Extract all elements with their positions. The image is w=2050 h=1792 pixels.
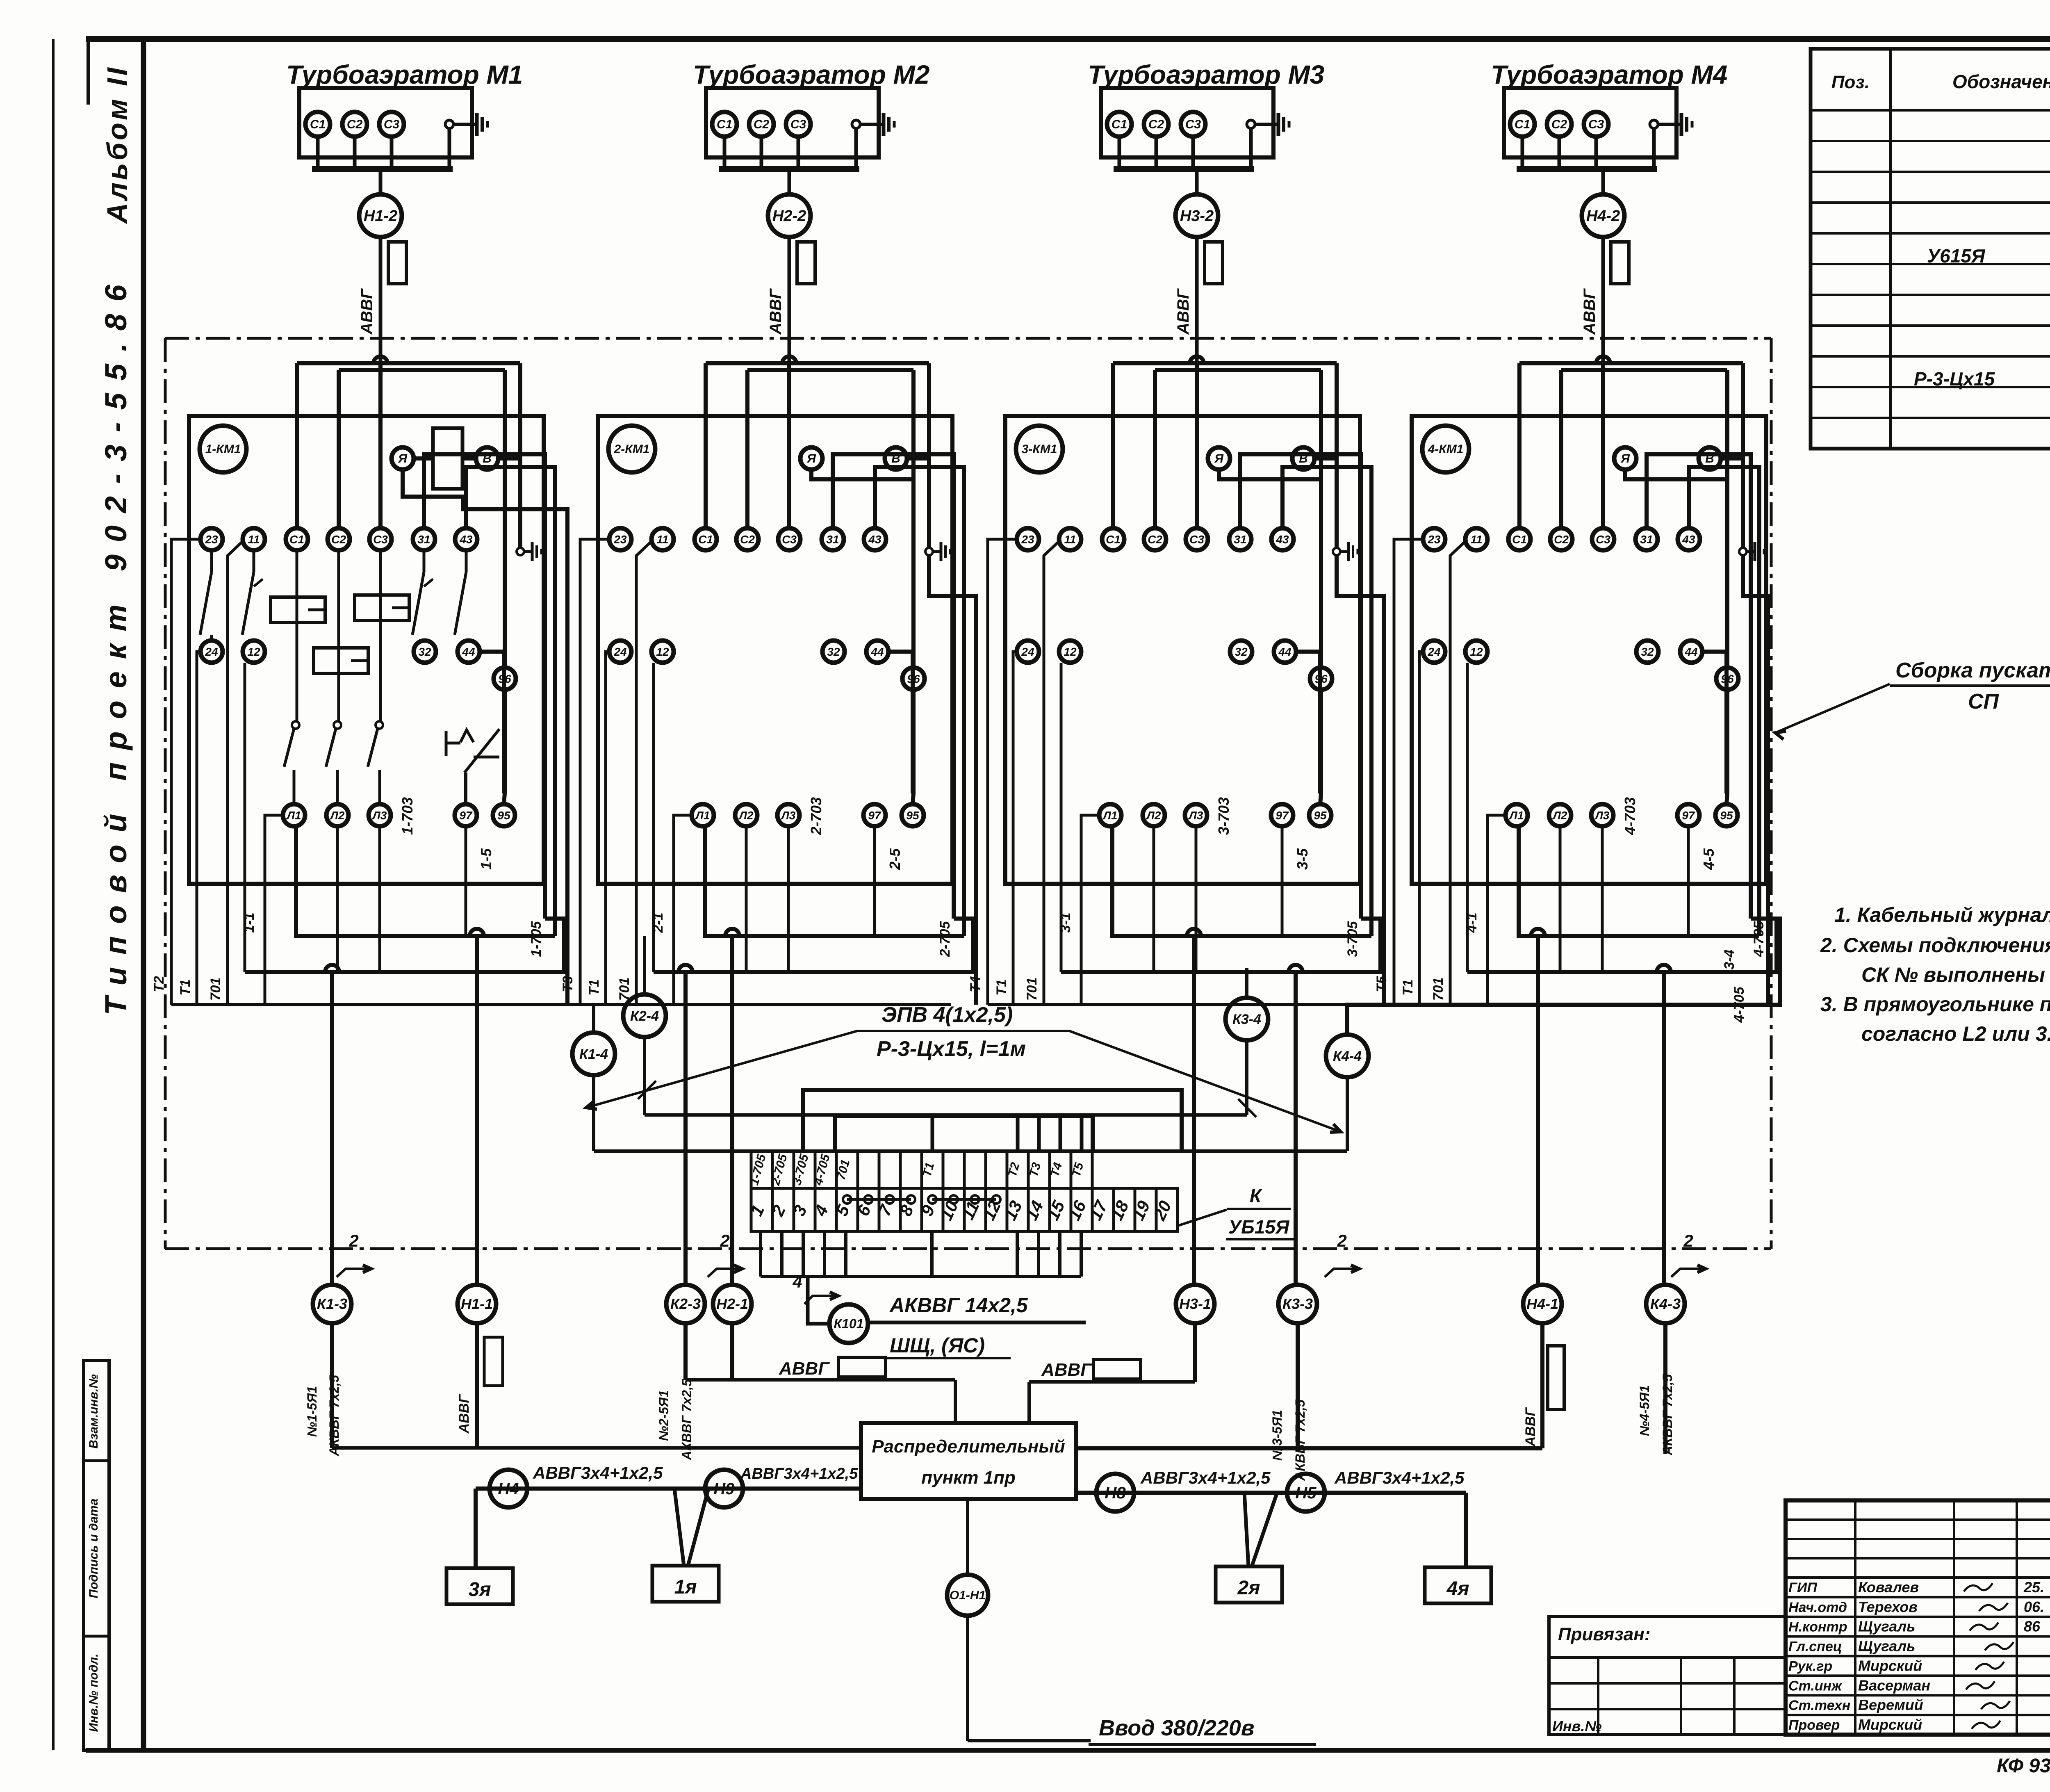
starter assembly boundary (dash-dot) [165, 338, 1771, 1249]
svg-text:3-5: 3-5 [1294, 848, 1311, 870]
svg-text:24: 24 [205, 645, 218, 658]
svg-text:Т3: Т3 [560, 976, 576, 992]
terminal С2 (3-КМ1) [1144, 528, 1166, 550]
terminal С1 (4-КМ1) [1508, 528, 1531, 550]
terminal 10 [943, 1188, 964, 1231]
wire [414, 456, 433, 461]
terminal 24 (2-КМ1) [609, 641, 631, 663]
svg-text:Турбоаэратор М1: Турбоаэратор М1 [286, 60, 523, 89]
wire [1394, 539, 1423, 1005]
svg-text:К2-3: К2-3 [670, 1295, 701, 1312]
wire [378, 363, 383, 528]
designator 4-КМ1 [1422, 426, 1469, 472]
cable callout ЭПВ 4(1х2,5) [586, 1003, 1341, 1132]
strip upper cell 5 [836, 1151, 858, 1188]
svg-text:К: К [1250, 1185, 1262, 1206]
motor terminal С2 (M2) [749, 112, 774, 137]
terminal 32 (4-КМ1) [1636, 641, 1658, 663]
svg-text:1-1: 1-1 [241, 912, 257, 932]
svg-text:1-КМ1: 1-КМ1 [205, 442, 241, 456]
strip upper cell 6 [858, 1151, 879, 1188]
wire [1601, 237, 1605, 410]
svg-text:2-703: 2-703 [808, 797, 825, 835]
terminal 96 [1716, 668, 1738, 690]
svg-text:Сборка пускателей: Сборка пускателей [1895, 659, 2050, 682]
terminal 24 (1-КМ1) [200, 641, 223, 663]
wire [706, 361, 929, 365]
svg-text:4-КМ1: 4-КМ1 [1428, 442, 1464, 456]
svg-text:Типовой проект 902-3-55.86: Типовой проект 902-3-55.86 [99, 272, 133, 1015]
svg-text:Т1: Т1 [994, 979, 1009, 996]
svg-text:Ст.инж: Ст.инж [1788, 1678, 1843, 1694]
terminal 16 [1071, 1188, 1092, 1231]
terminal 23 (1-КМ1) [200, 528, 223, 550]
wire [244, 663, 246, 972]
terminal 97 (3-КМ1) [1271, 804, 1293, 826]
svg-text:2-КМ1: 2-КМ1 [614, 442, 650, 456]
wire [1155, 368, 1321, 372]
terminal Л3 (2-КМ1) [777, 804, 799, 826]
ground [1658, 123, 1681, 126]
svg-text:С1: С1 [1112, 118, 1127, 131]
terminal 97 (1-КМ1) [455, 804, 477, 826]
svg-text:3-КМ1: 3-КМ1 [1022, 442, 1057, 456]
wire [1244, 1493, 1248, 1566]
coil terminal Я (4) [1614, 447, 1636, 470]
cable marker Н2-2 [768, 194, 811, 237]
cable marker Н1-1 [458, 1285, 496, 1323]
section marker 2 [1671, 1231, 1706, 1277]
motor terminal С1 (M1) [305, 112, 330, 137]
wire [1702, 650, 1727, 654]
cable Н2-1 feeder [730, 1323, 734, 1380]
cable marker К3-3 [1278, 1285, 1317, 1323]
wire [913, 690, 913, 804]
ground tap (M3) [1247, 120, 1255, 128]
wire [336, 826, 339, 972]
svg-text:2: 2 [1683, 1231, 1693, 1250]
terminal 12 [986, 1188, 1007, 1231]
wire [1112, 826, 1371, 936]
cable marker Н4-1 [1523, 1285, 1562, 1323]
svg-text:К3-4: К3-4 [1232, 1012, 1261, 1027]
terminal Л3 (1-КМ1) [369, 804, 391, 826]
svg-text:К4-3: К4-3 [1650, 1295, 1681, 1312]
terminal Л2 (3-КМ1) [1143, 804, 1165, 826]
cable link К101 to ШЩ [868, 1294, 1086, 1358]
section marker 2 [708, 1231, 742, 1277]
cable К2-3 feeder [656, 1323, 694, 1461]
svg-text:2. Схемы подключения соединит: 2. Схемы подключения соединительных коро… [1820, 934, 2050, 957]
wire [835, 1116, 1093, 1151]
wire [1059, 1116, 1062, 1151]
wire [907, 456, 929, 461]
svg-text:К1-3: К1-3 [317, 1295, 347, 1312]
cable marker Н4 [490, 1470, 527, 1507]
svg-text:95: 95 [1720, 809, 1733, 822]
cable marker Н8 [1096, 1474, 1134, 1512]
terminal С3 (1-КМ1) [369, 528, 392, 550]
svg-text:Я: Я [1214, 452, 1224, 465]
strip upper cell 3 [794, 1151, 815, 1188]
svg-text:4-705: 4-705 [1751, 921, 1767, 957]
svg-text:АВВГ: АВВГ [767, 288, 785, 335]
svg-text:2: 2 [348, 1231, 358, 1250]
wire [1466, 663, 1469, 972]
svg-text:АКВВГ 7х2,5: АКВВГ 7х2,5 [679, 1379, 694, 1461]
bus РП to Н4/Н9 [476, 1486, 861, 1491]
main contact pole 1 [284, 550, 299, 804]
wire [245, 919, 564, 972]
svg-text:Л3: Л3 [1594, 809, 1610, 822]
svg-text:С1: С1 [1515, 118, 1530, 131]
thermal overload element [446, 729, 499, 804]
svg-text:11: 11 [1064, 533, 1076, 546]
turbo-aerator M1 unit [286, 60, 523, 410]
wire [265, 815, 283, 1005]
terminal 4 [815, 1188, 836, 1231]
wire [875, 467, 964, 936]
cable marker Н9 [705, 1470, 743, 1507]
terminal 32 (3-КМ1) [1230, 641, 1252, 663]
junction [1187, 929, 1201, 936]
breaker contact 11-12 [242, 550, 263, 635]
svg-text:32: 32 [418, 645, 431, 658]
magnetic starter block 1-КМ1 [151, 356, 594, 1285]
svg-text:Нач.отд: Нач.отд [1788, 1600, 1847, 1615]
parts list table [1811, 49, 2050, 449]
binding table Привязан [1549, 1616, 1786, 1735]
terminal 18 [1114, 1188, 1135, 1231]
terminal 3 [794, 1188, 815, 1231]
wire [674, 815, 692, 1005]
svg-text:97: 97 [868, 809, 881, 822]
svg-text:ЭПВ 4(1х2,5): ЭПВ 4(1х2,5) [881, 1003, 1013, 1027]
svg-text:АКВВГ 7х2,5: АКВВГ 7х2,5 [1293, 1399, 1307, 1481]
terminal 44 (4-КМ1) [1680, 641, 1702, 663]
svg-text:К101: К101 [834, 1316, 863, 1331]
svg-text:С2: С2 [1554, 533, 1569, 546]
svg-text:Турбоаэратор М3: Турбоаэратор М3 [1088, 60, 1324, 89]
cable marker К101 [808, 1277, 868, 1343]
wire [745, 826, 748, 972]
wire [1337, 555, 1384, 1005]
svg-text:3-1: 3-1 [1058, 912, 1073, 932]
wire [171, 539, 200, 1005]
svg-text:С3: С3 [1596, 533, 1610, 546]
wire [1219, 470, 1320, 479]
cable marker К3-4 [1225, 968, 1268, 1115]
terminal 12 (4-КМ1) [1465, 641, 1487, 663]
wire [330, 972, 334, 1285]
svg-text:1я: 1я [674, 1576, 697, 1598]
svg-text:32: 32 [1235, 645, 1248, 658]
svg-text:АВВГ3х4+1х2,5: АВВГ3х4+1х2,5 [740, 1465, 858, 1482]
panel 2я [1216, 1566, 1282, 1603]
wire [480, 650, 504, 654]
ground tap (M4) [1650, 120, 1658, 128]
svg-text:2-705: 2-705 [937, 921, 953, 957]
panel 1я [652, 1566, 719, 1602]
svg-text:Л3: Л3 [781, 809, 796, 822]
svg-text:44: 44 [1684, 645, 1698, 658]
svg-text:АКВВГ 14х2,5: АКВВГ 14х2,5 [889, 1294, 1028, 1317]
wire [1118, 137, 1121, 169]
svg-text:23: 23 [1021, 533, 1034, 546]
svg-text:4я: 4я [1446, 1578, 1469, 1600]
cable section box [1205, 242, 1223, 284]
svg-text:Я: Я [398, 452, 408, 465]
svg-text:701: 701 [617, 978, 632, 1001]
svg-text:Л1: Л1 [1509, 809, 1524, 822]
ground [453, 123, 477, 126]
wire [654, 919, 973, 972]
svg-text:23: 23 [613, 533, 627, 546]
svg-text:СК № выполнены в проекте ЯТХ,: СК № выполнены в проекте ЯТХ, L5,6. [1861, 963, 2050, 986]
terminal 17 [1092, 1188, 1114, 1231]
svg-text:43: 43 [1276, 533, 1289, 546]
svg-text:701: 701 [208, 978, 223, 1001]
terminal 95 (1-КМ1) [493, 804, 515, 826]
terminal 11 (1-КМ1) [243, 528, 265, 550]
terminal 95 (4-КМ1) [1715, 804, 1738, 826]
terminal С1 (2-КМ1) [695, 528, 717, 550]
wire [171, 1003, 594, 1006]
relay coil 1 [271, 597, 325, 622]
designator 1-КМ1 [200, 426, 246, 472]
svg-text:АВВГ3х4+1х2,5: АВВГ3х4+1х2,5 [1334, 1468, 1465, 1487]
terminal 31 (3-КМ1) [1229, 528, 1251, 550]
svg-text:4: 4 [792, 1272, 802, 1291]
wire [1195, 826, 1198, 972]
wire [674, 1489, 684, 1566]
svg-text:Поз.: Поз. [1831, 72, 1870, 92]
notes [1820, 903, 2050, 1045]
svg-text:Ковалев: Ковалев [1858, 1579, 1919, 1596]
strip lower comb [761, 1231, 1081, 1277]
svg-text:Н2-1: Н2-1 [716, 1295, 748, 1312]
wire [1249, 128, 1253, 169]
svg-text:44: 44 [1278, 645, 1291, 658]
svg-text:Н5: Н5 [1295, 1484, 1317, 1502]
svg-text:Н1-1: Н1-1 [461, 1295, 493, 1312]
wire [1037, 1116, 1041, 1151]
wire [228, 541, 243, 1005]
svg-text:31: 31 [1640, 533, 1653, 546]
svg-text:С2: С2 [740, 533, 755, 546]
svg-text:Н4-1: Н4-1 [1526, 1295, 1558, 1312]
svg-text:Мирский: Мирский [1858, 1716, 1922, 1733]
terminal С2 (2-КМ1) [736, 528, 758, 550]
bus to РП left [332, 1446, 861, 1450]
cable marker Н3-1 [1176, 1285, 1214, 1323]
svg-text:К3-3: К3-3 [1282, 1295, 1313, 1312]
svg-text:Ввод 380/220в: Ввод 380/220в [1099, 1716, 1254, 1740]
terminal С3 (4-КМ1) [1592, 528, 1614, 550]
wire [379, 169, 383, 194]
terminal 15 [1050, 1188, 1071, 1231]
svg-text:УБ15Я: УБ15Я [1228, 1216, 1290, 1238]
svg-text:Щугаль: Щугаль [1858, 1618, 1915, 1635]
wire [1662, 972, 1666, 1285]
wire [1113, 361, 1337, 365]
wire [1687, 826, 1690, 936]
motor lead bus [1517, 166, 1657, 172]
contactor coil [433, 428, 462, 489]
svg-text:К1-4: К1-4 [579, 1046, 608, 1062]
cable marker Н1-2 [359, 194, 402, 237]
junction [1289, 965, 1303, 972]
motor lead bus [312, 166, 453, 172]
coil terminal Я (3) [1208, 447, 1230, 470]
junction [1531, 929, 1545, 936]
terminal Л1 (4-КМ1) [1506, 804, 1528, 826]
title block [1786, 1500, 2050, 1735]
svg-text:12: 12 [656, 645, 669, 658]
svg-text:Н2-2: Н2-2 [772, 207, 806, 225]
terminal Л1 (1-КМ1) [283, 804, 305, 826]
wire [1721, 456, 1743, 461]
wire [606, 652, 610, 1005]
svg-text:Р-3-Цх15: Р-3-Цх15 [1914, 368, 1995, 390]
wire [1521, 137, 1524, 169]
svg-text:44: 44 [462, 645, 475, 658]
terminal 24 (4-КМ1) [1423, 641, 1445, 663]
wire [988, 539, 1017, 1005]
wire [1155, 137, 1158, 169]
svg-text:С2: С2 [347, 118, 363, 131]
terminal 11 [964, 1188, 986, 1231]
svg-text:Н4-2: Н4-2 [1586, 207, 1620, 225]
terminal 32 (2-КМ1) [822, 641, 845, 663]
bus from Н2-1 to РП top [686, 1357, 955, 1423]
strip upper cell 4 [815, 1151, 836, 1188]
terminal 43 (4-КМ1) [1678, 528, 1700, 550]
terminal 96 [494, 668, 516, 690]
wire [390, 137, 394, 169]
coil terminal Я (2) [800, 447, 822, 470]
svg-text:701: 701 [1024, 978, 1040, 1001]
ground [1747, 550, 1755, 553]
wire [636, 541, 651, 1005]
svg-text:АВВГ3х4+1х2,5: АВВГ3х4+1х2,5 [533, 1463, 663, 1482]
ground [933, 550, 941, 553]
terminal 12 (3-КМ1) [1059, 641, 1081, 663]
svg-text:1. Кабельный журнал ст. L10: 1. Кабельный журнал ст. L10 [1834, 903, 2050, 926]
junction [1596, 356, 1610, 363]
svg-text:С3: С3 [384, 118, 400, 131]
magnetic starter block 4-КМ1 [1374, 356, 1777, 1285]
motor terminal С2 (M4) [1547, 112, 1572, 137]
junction [782, 356, 796, 363]
terminal С1 (3-КМ1) [1102, 528, 1124, 550]
terminal 44 (1-КМ1) [458, 641, 480, 663]
wire [474, 1489, 478, 1568]
svg-text:25.: 25. [2023, 1579, 2044, 1596]
svg-text:95: 95 [1314, 809, 1327, 822]
wire [854, 128, 858, 169]
ground tap [925, 548, 933, 555]
wire [379, 237, 383, 410]
wire [1320, 690, 1321, 804]
svg-text:1-5: 1-5 [478, 848, 494, 870]
svg-text:С1: С1 [698, 533, 713, 546]
wire [1558, 137, 1561, 169]
wire [688, 1489, 708, 1566]
wire [1061, 919, 1380, 972]
terminal 12 (2-КМ1) [651, 641, 674, 663]
turbo-aerator M3 unit [1088, 60, 1324, 410]
svg-text:С3: С3 [1189, 533, 1204, 546]
svg-text:43: 43 [1682, 533, 1695, 546]
svg-text:О1-Н1: О1-Н1 [950, 1589, 986, 1602]
wire [197, 652, 201, 1005]
wire [1625, 470, 1726, 479]
wire [760, 137, 763, 169]
svg-text:Л1: Л1 [1102, 809, 1118, 822]
svg-text:Обозначение: Обозначение [1952, 71, 2050, 92]
wire [1601, 363, 1605, 528]
terminal 31 (4-КМ1) [1635, 528, 1658, 550]
svg-text:С3: С3 [1185, 118, 1201, 131]
svg-text:С1: С1 [289, 533, 304, 546]
strip upper cell 11 [964, 1151, 986, 1188]
terminal Л2 (4-КМ1) [1549, 804, 1571, 826]
bus К2-4 to К3-4 [645, 1113, 1247, 1117]
strip upper cell 14 [1028, 1151, 1050, 1188]
wire [1080, 1116, 1084, 1151]
wire [1081, 815, 1099, 1005]
wire [1281, 826, 1284, 936]
designator 3-КМ1 [1016, 426, 1063, 472]
cable marker Н3-2 [1175, 194, 1218, 237]
svg-text:Альбом II: Альбом II [101, 65, 133, 224]
cable Н3-1 feeder [1029, 1323, 1195, 1423]
terminal block strip [747, 1151, 1178, 1277]
svg-text:43: 43 [868, 533, 881, 546]
svg-text:С2: С2 [1148, 118, 1164, 131]
bus РП right [1076, 1446, 1542, 1450]
junction [1190, 356, 1204, 363]
terminal 97 (2-КМ1) [863, 804, 886, 826]
wire [1450, 541, 1465, 1005]
svg-text:№2-5Я1: №2-5Я1 [656, 1390, 671, 1441]
wire [929, 555, 976, 1005]
cable marker О1-Н1 [947, 1499, 1091, 1741]
svg-text:3. В прямоугольнике проставит: 3. В прямоугольнике проставить сечение к… [1820, 993, 2050, 1016]
strip upper cell 9 [922, 1151, 943, 1188]
terminal 96 [902, 668, 925, 690]
svg-text:№3-5Я1: №3-5Я1 [1270, 1410, 1285, 1461]
svg-text:АВВГ: АВВГ [1041, 1360, 1092, 1380]
wire [1419, 652, 1424, 1005]
relay coil 2 [355, 595, 409, 620]
motor terminal С3 (M2) [786, 112, 811, 137]
terminal Л1 (3-КМ1) [1099, 804, 1121, 826]
svg-text:Л2: Л2 [330, 809, 345, 822]
wire [1601, 169, 1605, 194]
coil terminal Я (1) [392, 447, 414, 470]
main contact pole 3 [368, 550, 383, 804]
wire [1153, 826, 1155, 972]
svg-text:№1-5Я1: №1-5Я1 [305, 1386, 319, 1437]
wire [504, 690, 505, 804]
svg-text:11: 11 [1470, 533, 1482, 546]
terminal 44 (2-КМ1) [866, 641, 888, 663]
designator 2-КМ1 [608, 426, 655, 472]
wire [1652, 128, 1656, 169]
wire [424, 454, 545, 919]
